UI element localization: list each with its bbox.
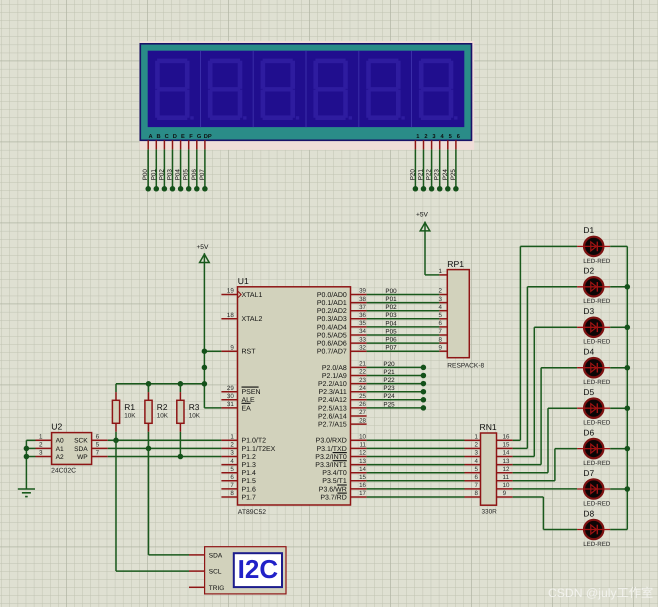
pin SDA (5) xyxy=(92,447,108,449)
display pin P04 stub xyxy=(180,140,182,149)
wire A2 xyxy=(26,456,35,458)
pin P2.2/A10 (23) xyxy=(351,383,367,385)
pin P0.3/AD3 (36) xyxy=(351,318,367,320)
svg-text:8: 8 xyxy=(230,490,234,497)
wire display P03 xyxy=(172,149,174,188)
wire +5V vertical rail xyxy=(203,253,205,408)
I2C logo box xyxy=(234,553,282,587)
svg-text:38: 38 xyxy=(359,296,366,303)
pin RP1 3 xyxy=(439,302,447,304)
wire to D4 xyxy=(541,367,577,369)
junction R3 bottom xyxy=(178,454,184,460)
LED D8 LED-RED xyxy=(577,508,611,548)
svg-text:15: 15 xyxy=(503,442,510,449)
pin P0.4/AD4 (35) xyxy=(351,326,367,328)
wire D7 to rail xyxy=(610,488,627,490)
wire A0 xyxy=(26,439,35,441)
node P20 end xyxy=(421,365,427,371)
pin P0.5/AD5 (34) xyxy=(351,334,367,336)
svg-text:A0: A0 xyxy=(56,438,64,445)
svg-text:SCK: SCK xyxy=(74,438,88,445)
pin ALE (30) xyxy=(221,399,237,401)
svg-text:CSDN @july工作室: CSDN @july工作室 xyxy=(548,586,653,600)
pin WP (7) xyxy=(92,456,108,458)
op-amp U2 24C02C EEPROM body xyxy=(52,433,92,465)
svg-text:10: 10 xyxy=(359,434,366,441)
pin I2C SCL xyxy=(189,570,205,572)
svg-text:AT89C52: AT89C52 xyxy=(238,509,266,516)
svg-text:U2: U2 xyxy=(51,422,62,432)
node P23 xyxy=(437,186,443,192)
INT0 overline xyxy=(333,452,347,454)
svg-text:P2.2/A10: P2.2/A10 xyxy=(318,380,347,388)
svg-text:31: 31 xyxy=(227,401,234,408)
pin RN1 16 xyxy=(497,439,513,441)
svg-text:P2.7/A15: P2.7/A15 xyxy=(318,421,347,429)
svg-text:P0.0/AD0: P0.0/AD0 xyxy=(317,291,347,299)
svg-text:6: 6 xyxy=(474,474,478,481)
svg-text:P1.2: P1.2 xyxy=(242,454,257,461)
pin P2.3/A11 (24) xyxy=(351,391,367,393)
RD overline xyxy=(337,492,346,494)
resistor R1 10K xyxy=(115,384,117,392)
svg-text:4: 4 xyxy=(474,458,478,465)
digit 3 segments (off) xyxy=(261,59,300,120)
svg-text:D5: D5 xyxy=(583,387,594,397)
svg-text:EA: EA xyxy=(242,405,252,412)
svg-text:P24: P24 xyxy=(442,169,449,181)
wire riser to D4 xyxy=(540,368,542,465)
wire RN1 pin14 out xyxy=(513,456,535,458)
display pin P06 stub xyxy=(196,140,198,149)
pin RN1 11 xyxy=(497,480,513,482)
svg-text:D3: D3 xyxy=(583,306,594,316)
wire D8 to rail xyxy=(610,529,627,531)
wire P06 U1-RP1 xyxy=(367,342,440,344)
display pin P07 stub xyxy=(204,140,206,149)
display pin P00 stub xyxy=(147,140,149,149)
svg-text:P00: P00 xyxy=(142,169,149,181)
svg-text:P0.2/AD2: P0.2/AD2 xyxy=(317,307,347,315)
wire RN1 pin15 out xyxy=(513,447,528,449)
svg-text:11: 11 xyxy=(503,474,510,481)
svg-text:24C02C: 24C02C xyxy=(51,468,76,475)
svg-text:+5V: +5V xyxy=(416,212,429,219)
junction A1 xyxy=(24,446,30,452)
svg-text:P22: P22 xyxy=(383,377,395,384)
node P00 xyxy=(145,186,151,192)
wire P01 U1-RP1 xyxy=(367,302,440,304)
svg-text:P23: P23 xyxy=(434,169,441,181)
LED D6 LED-RED xyxy=(577,427,611,467)
svg-text:1: 1 xyxy=(39,434,43,441)
svg-text:P1.7: P1.7 xyxy=(242,494,257,501)
svg-text:P07: P07 xyxy=(199,169,206,181)
pin P2.6/A14 (27) xyxy=(351,415,367,417)
wire U1 P3.1 to RN1 xyxy=(367,447,465,449)
svg-text:12: 12 xyxy=(359,450,366,457)
svg-text:3: 3 xyxy=(432,134,435,140)
wire P07 U1-RP1 xyxy=(367,350,440,352)
wire LED common rail xyxy=(626,246,628,529)
wire +5V to RP1 pin1 xyxy=(425,274,439,276)
digit cell separator xyxy=(252,51,254,127)
node P05 xyxy=(186,186,192,192)
svg-text:P3.2/INT0: P3.2/INT0 xyxy=(315,453,347,461)
wire U1 P3.7 to RN1 xyxy=(367,496,465,498)
svg-text:P21: P21 xyxy=(383,369,395,376)
wire display P21 xyxy=(423,149,425,188)
wire display P02 xyxy=(163,149,165,188)
wire RN1 pin13 out xyxy=(513,464,542,466)
display pin P02 stub xyxy=(163,140,165,149)
op-amp U1 AT89C52 microcontroller body xyxy=(238,287,351,505)
svg-text:TRIG: TRIG xyxy=(209,585,225,592)
LED D7 LED-RED xyxy=(577,468,611,508)
wire D3 to rail xyxy=(610,326,627,328)
svg-text:25: 25 xyxy=(359,393,366,400)
svg-text:RP1: RP1 xyxy=(447,259,464,269)
svg-text:P20: P20 xyxy=(409,169,416,181)
pin P0.0/AD0 (39) xyxy=(351,294,367,296)
junction rail D4 xyxy=(625,365,631,371)
pin PSEN (29) xyxy=(221,391,237,393)
svg-text:B: B xyxy=(157,134,161,140)
svg-text:14: 14 xyxy=(359,466,366,473)
svg-text:13: 13 xyxy=(359,458,366,465)
junction rail xyxy=(202,381,208,387)
wire U2 SCK to U1 xyxy=(108,439,222,441)
pin P0.6/AD6 (33) xyxy=(351,342,367,344)
svg-text:26: 26 xyxy=(359,401,366,408)
junction rail D6 xyxy=(625,446,631,452)
pin RN1 2 xyxy=(465,447,481,449)
pin RN1 8 xyxy=(465,496,481,498)
svg-text:XTAL1: XTAL1 xyxy=(242,292,263,299)
pin RP1 8 xyxy=(439,342,447,344)
wire display P07 xyxy=(204,149,206,188)
svg-text:10K: 10K xyxy=(189,413,201,420)
wire riser to D2 xyxy=(526,287,528,449)
svg-text:P3.3/INT1: P3.3/INT1 xyxy=(315,461,347,469)
svg-text:3: 3 xyxy=(230,450,234,457)
U1 XTAL1 clock chevron xyxy=(238,291,241,297)
wire P03 U1-RP1 xyxy=(367,318,440,320)
pin P3.6/WR (16) xyxy=(351,488,367,490)
svg-text:D6: D6 xyxy=(583,427,594,437)
svg-text:2: 2 xyxy=(474,442,478,449)
svg-text:LED-RED: LED-RED xyxy=(583,339,611,346)
wire U1 P3.6 to RN1 xyxy=(367,488,465,490)
svg-text:12: 12 xyxy=(503,466,510,473)
node P20 xyxy=(413,186,419,192)
svg-text:LED-RED: LED-RED xyxy=(583,258,611,265)
svg-text:18: 18 xyxy=(227,312,234,319)
svg-text:1: 1 xyxy=(439,268,443,275)
svg-text:U1: U1 xyxy=(238,276,249,286)
svg-text:16: 16 xyxy=(503,434,510,441)
svg-text:P3.4/T0: P3.4/T0 xyxy=(322,469,347,477)
svg-text:3: 3 xyxy=(474,450,478,457)
junction R1 bottom / SCL xyxy=(113,438,119,444)
pin RN1 9 xyxy=(497,496,513,498)
wire display P04 xyxy=(180,149,182,188)
wire to D5 xyxy=(548,407,577,409)
svg-text:P2.0/A8: P2.0/A8 xyxy=(322,364,347,372)
svg-text:36: 36 xyxy=(359,312,366,319)
pin RN1 7 xyxy=(465,488,481,490)
wire resistor top rail xyxy=(116,383,204,385)
wire riser to D6 xyxy=(554,449,556,481)
display pin P03 stub xyxy=(172,140,174,149)
pin P3.7/RD (17) xyxy=(351,496,367,498)
wire U2 WP to U1 xyxy=(108,456,222,458)
pin RN1 3 xyxy=(465,456,481,458)
wire P24 xyxy=(367,399,424,401)
node P06 xyxy=(194,186,200,192)
LED D5 LED-RED xyxy=(577,387,611,427)
wire riser to D5 xyxy=(547,408,549,473)
pin EA (31) xyxy=(221,407,237,409)
svg-text:6: 6 xyxy=(439,320,443,327)
svg-text:8: 8 xyxy=(439,336,443,343)
pin RN1 15 xyxy=(497,447,513,449)
pin SCK (6) xyxy=(92,439,108,441)
svg-text:LED-RED: LED-RED xyxy=(583,379,611,386)
wire SDA vertical xyxy=(148,448,150,555)
svg-text:P20: P20 xyxy=(383,361,395,368)
resistor network RN1 330R body xyxy=(481,433,497,505)
wire to D3 xyxy=(534,326,577,328)
svg-text:P1.4: P1.4 xyxy=(242,470,257,477)
wire display P06 xyxy=(196,149,198,188)
svg-text:30: 30 xyxy=(227,393,234,400)
svg-text:RESPACK-8: RESPACK-8 xyxy=(447,362,484,369)
pin RP1 6 xyxy=(439,326,447,328)
svg-text:1: 1 xyxy=(416,134,419,140)
7-segment display body (pink pin band) xyxy=(140,41,475,150)
display teal frame xyxy=(140,44,471,141)
wire P05 U1-RP1 xyxy=(367,334,440,336)
node P21 end xyxy=(421,373,427,379)
svg-text:D1: D1 xyxy=(583,225,594,235)
svg-text:1: 1 xyxy=(230,434,234,441)
svg-text:19: 19 xyxy=(227,288,234,295)
wire D4 to rail xyxy=(610,367,627,369)
wire D2 to rail xyxy=(610,286,627,288)
svg-text:D4: D4 xyxy=(583,347,594,357)
svg-text:9: 9 xyxy=(439,344,443,351)
svg-text:D2: D2 xyxy=(583,266,594,276)
svg-text:2: 2 xyxy=(39,442,43,449)
wire display P25 xyxy=(455,149,457,188)
wire D6 to rail xyxy=(610,448,627,450)
junction rail D7 xyxy=(625,486,631,492)
wire SDA horizontal xyxy=(149,554,190,556)
junction mid xyxy=(202,365,208,371)
svg-text:5: 5 xyxy=(449,134,452,140)
svg-text:P00: P00 xyxy=(385,288,397,295)
svg-text:27: 27 xyxy=(359,409,366,416)
pin RN1 4 xyxy=(465,464,481,466)
pin RN1 10 xyxy=(497,488,513,490)
wire U1 P3.4 to RN1 xyxy=(367,472,465,474)
node P25 xyxy=(453,186,459,192)
svg-text:P3.6/WR: P3.6/WR xyxy=(319,485,347,493)
LED D1 LED-RED xyxy=(577,225,611,265)
pin P1.0 (1) xyxy=(221,439,237,441)
pin A1 (2) xyxy=(36,447,52,449)
svg-text:2: 2 xyxy=(439,288,443,295)
node P24 xyxy=(445,186,451,192)
display pin P01 stub xyxy=(155,140,157,149)
pin P1.6 (7) xyxy=(221,488,237,490)
wire +5V RP1 vertical xyxy=(424,222,426,275)
pin P1.4 (5) xyxy=(221,472,237,474)
junction rail D3 xyxy=(625,325,631,331)
svg-text:P0.3/AD3: P0.3/AD3 xyxy=(317,315,347,323)
pin RP1 2 xyxy=(439,294,447,296)
svg-text:P1.1/T2EX: P1.1/T2EX xyxy=(242,445,276,453)
wire P23 xyxy=(367,391,424,393)
wire display P00 xyxy=(147,149,149,188)
svg-text:9: 9 xyxy=(503,490,507,497)
svg-text:4: 4 xyxy=(439,304,443,311)
svg-text:39: 39 xyxy=(359,288,366,295)
junction rail D5 xyxy=(625,405,631,411)
svg-text:7: 7 xyxy=(96,450,100,457)
pin P0.1/AD1 (38) xyxy=(351,302,367,304)
svg-text:33: 33 xyxy=(359,336,366,343)
svg-text:5: 5 xyxy=(474,466,478,473)
display pin P25 stub xyxy=(455,140,457,149)
svg-text:7: 7 xyxy=(474,482,478,489)
node P04 xyxy=(178,186,184,192)
svg-text:P3.7/RD: P3.7/RD xyxy=(320,493,346,501)
wire P20 xyxy=(367,366,424,368)
svg-text:P06: P06 xyxy=(385,337,397,344)
pin XTAL1 (19) xyxy=(221,294,237,296)
wire SCL horizontal xyxy=(116,570,189,572)
svg-text:6: 6 xyxy=(96,434,100,441)
wire RN1 pin11 out xyxy=(513,480,555,482)
wire D1 to rail xyxy=(610,245,627,247)
pin P2.0/A8 (21) xyxy=(351,366,367,368)
wire RN1 pin9 out xyxy=(513,496,544,498)
svg-text:17: 17 xyxy=(359,490,366,497)
pin XTAL2 (18) xyxy=(221,318,237,320)
pin P1.7 (8) xyxy=(221,496,237,498)
wire P00 U1-RP1 xyxy=(367,294,440,296)
svg-text:LED-RED: LED-RED xyxy=(583,500,611,507)
resistor R3 10K xyxy=(179,384,181,392)
svg-text:5: 5 xyxy=(439,312,443,319)
junction A2 xyxy=(24,454,30,460)
svg-text:P03: P03 xyxy=(167,169,174,181)
svg-text:A1: A1 xyxy=(56,446,64,453)
svg-text:P3.1/TXD: P3.1/TXD xyxy=(316,445,346,453)
digit 5 segments (off) xyxy=(366,59,405,120)
LED D4 LED-RED xyxy=(577,347,611,387)
svg-text:5: 5 xyxy=(96,442,100,449)
pin P3.4/T0 (14) xyxy=(351,472,367,474)
wire EA to +5V xyxy=(204,407,221,409)
node P23 end xyxy=(421,389,427,395)
wire display P20 xyxy=(414,149,416,188)
svg-text:P2.1/A9: P2.1/A9 xyxy=(322,372,347,380)
WR overline xyxy=(337,484,347,486)
digit cell separator xyxy=(200,51,202,127)
svg-text:35: 35 xyxy=(359,320,366,327)
svg-text:P01: P01 xyxy=(150,169,157,181)
svg-text:LED-RED: LED-RED xyxy=(583,420,611,427)
svg-text:28: 28 xyxy=(359,417,366,424)
pin RN1 13 xyxy=(497,464,513,466)
wire RN1 pin10 to D7 xyxy=(513,488,578,490)
svg-text:P02: P02 xyxy=(158,169,165,181)
svg-text:R1: R1 xyxy=(124,402,135,412)
EA overline xyxy=(242,402,251,404)
resistor pack RP1 RESPACK-8 body xyxy=(447,270,469,358)
svg-text:6: 6 xyxy=(230,474,234,481)
svg-text:DP: DP xyxy=(204,134,212,140)
LED D3 LED-RED xyxy=(577,306,611,346)
wire P04 U1-RP1 xyxy=(367,326,440,328)
svg-text:P0.1/AD1: P0.1/AD1 xyxy=(317,299,347,307)
pin P2.5/A13 (26) xyxy=(351,407,367,409)
svg-text:16: 16 xyxy=(359,482,366,489)
digit 1 segments (off) xyxy=(155,59,194,120)
svg-text:P22: P22 xyxy=(426,169,433,181)
pin RN1 12 xyxy=(497,472,513,474)
svg-text:10K: 10K xyxy=(157,413,169,420)
svg-text:P21: P21 xyxy=(418,169,425,181)
pin I2C SDA xyxy=(189,554,205,556)
wire riser to D3 xyxy=(533,327,535,456)
wire D5 to rail xyxy=(610,407,627,409)
wire display P05 xyxy=(188,149,190,188)
junction R2 bottom / SDA xyxy=(146,446,152,452)
svg-text:RST: RST xyxy=(242,349,257,356)
pin P2.4/A12 (25) xyxy=(351,399,367,401)
pin RN1 6 xyxy=(465,480,481,482)
display pin P05 stub xyxy=(188,140,190,149)
pin A2 (3) xyxy=(36,456,52,458)
svg-text:P2.4/A12: P2.4/A12 xyxy=(318,396,347,404)
svg-text:P1.6: P1.6 xyxy=(242,486,257,493)
pin RN1 5 xyxy=(465,472,481,474)
display inner panel xyxy=(148,51,465,127)
svg-text:37: 37 xyxy=(359,304,366,311)
node P21 xyxy=(421,186,427,192)
svg-text:P07: P07 xyxy=(385,345,397,352)
pin P2.1/A9 (22) xyxy=(351,375,367,377)
node P02 xyxy=(162,186,168,192)
pin P1.1 (2) xyxy=(221,447,237,449)
pin RST (9) xyxy=(221,350,237,352)
svg-text:21: 21 xyxy=(359,361,366,368)
svg-text:P05: P05 xyxy=(385,328,397,335)
node P22 xyxy=(429,186,435,192)
svg-text:D8: D8 xyxy=(583,508,594,518)
svg-text:LED-RED: LED-RED xyxy=(583,541,611,548)
svg-text:P25: P25 xyxy=(450,169,457,181)
svg-text:P1.0/T2: P1.0/T2 xyxy=(242,437,267,445)
pin RP1 5 xyxy=(439,318,447,320)
svg-text:23: 23 xyxy=(359,377,366,384)
digit cell separator xyxy=(358,51,360,127)
pin P1.3 (4) xyxy=(221,464,237,466)
